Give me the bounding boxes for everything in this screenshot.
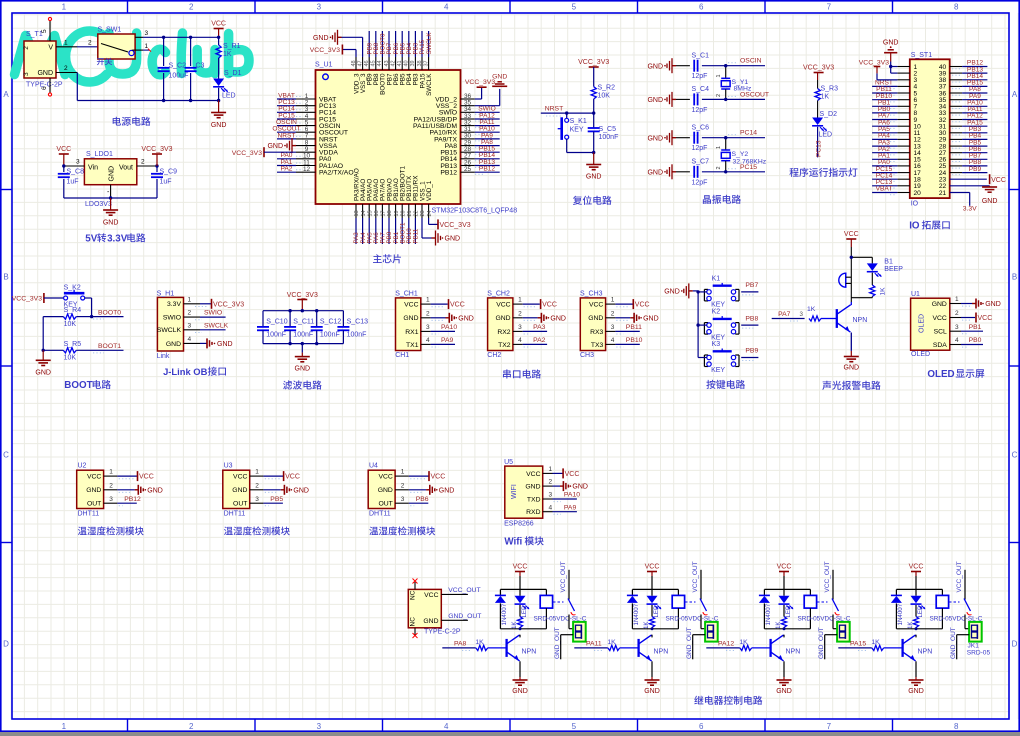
svg-text:TXD: TXD xyxy=(527,496,541,503)
svg-text:VCC_3V3: VCC_3V3 xyxy=(310,47,340,54)
svg-text:S_C9: S_C9 xyxy=(160,169,178,176)
svg-text:GND_OUT: GND_OUT xyxy=(818,627,825,659)
svg-text:GND: GND xyxy=(295,366,311,373)
svg-text:15: 15 xyxy=(367,210,373,216)
svg-text:GND: GND xyxy=(776,688,792,695)
svg-text:100nF: 100nF xyxy=(347,332,367,339)
svg-text:1K: 1K xyxy=(821,94,830,101)
svg-text:S_K2: S_K2 xyxy=(64,285,81,292)
svg-text:8: 8 xyxy=(954,3,959,12)
svg-text:23: 23 xyxy=(420,210,426,216)
svg-text:NRST: NRST xyxy=(545,106,564,113)
svg-text:8: 8 xyxy=(954,722,959,731)
net label PA8 relay base xyxy=(442,641,476,651)
svg-text:GND: GND xyxy=(883,40,899,47)
ground OLED pin1 xyxy=(950,296,1001,308)
svg-text:1: 1 xyxy=(716,146,722,149)
svg-text:S_R5: S_R5 xyxy=(64,341,82,348)
net label PA9 wifi pin4 xyxy=(543,504,577,514)
relay contact PA11 xyxy=(685,561,708,628)
svg-text:2: 2 xyxy=(426,310,430,317)
svg-text:TX1: TX1 xyxy=(406,342,419,349)
svg-text:PA9: PA9 xyxy=(441,337,454,344)
svg-text:1: 1 xyxy=(955,296,959,303)
net label GND_OUT xyxy=(441,613,481,620)
svg-text:1: 1 xyxy=(518,297,522,304)
net label PA15 relay base xyxy=(838,641,872,651)
net label PA11 relay base xyxy=(574,641,608,651)
power VCC_3V3 chip VDDA pin9 xyxy=(232,147,296,157)
diode 1N4007 PA12 xyxy=(759,589,772,628)
svg-text:JK1: JK1 xyxy=(968,642,980,649)
svg-text:VCC_3V3: VCC_3V3 xyxy=(12,296,42,303)
pin 17 PA7/AO xyxy=(380,204,387,244)
svg-text:S_D2: S_D2 xyxy=(820,111,838,118)
header pin 15 PA1 xyxy=(872,153,910,162)
svg-text:S_C1: S_C1 xyxy=(692,53,710,60)
svg-text:6: 6 xyxy=(699,3,704,12)
pin 24 VDD_1 xyxy=(427,204,433,218)
svg-text:1N4007: 1N4007 xyxy=(501,603,508,625)
svg-text:100nF: 100nF xyxy=(266,332,286,339)
diode 1N4007 PA11 xyxy=(627,589,640,628)
header pin 6 PB10 xyxy=(872,93,910,102)
title 声光报警电路 xyxy=(822,381,880,390)
svg-text:GND: GND xyxy=(525,484,540,491)
svg-text:KEY: KEY xyxy=(570,127,584,134)
ground chip VSS_1 xyxy=(422,218,460,246)
svg-text:PA10: PA10 xyxy=(441,324,457,331)
label 开关 xyxy=(97,58,112,65)
svg-text:S_R4: S_R4 xyxy=(64,307,82,314)
svg-text:NC: NC xyxy=(410,590,417,600)
svg-text:VCC: VCC xyxy=(431,474,446,481)
resistor relay 1K PA12 xyxy=(775,605,786,629)
title 电源电路 xyxy=(113,117,151,126)
header pin 38 PB14 xyxy=(950,73,988,82)
svg-text:47: 47 xyxy=(357,60,363,66)
wire relay bottom rail PA8 xyxy=(500,627,546,630)
capacitor S_C8 1uF xyxy=(58,166,84,198)
key S_K2 boot xyxy=(64,285,92,317)
pin 44 BOOT0 xyxy=(377,31,386,70)
svg-text:BOOT1: BOOT1 xyxy=(98,343,121,350)
svg-text:PA10: PA10 xyxy=(564,492,580,499)
header S_H1 J-Link body xyxy=(157,290,184,359)
net label SWIO jlink pin2 xyxy=(184,310,226,320)
svg-text:1K: 1K xyxy=(511,621,518,629)
resistor S_R3 1K xyxy=(815,86,838,118)
pin 38 PA15 xyxy=(417,31,426,70)
svg-text:PA3: PA3 xyxy=(533,324,546,331)
title 串口电路 xyxy=(503,369,541,378)
svg-text:PB5: PB5 xyxy=(270,496,283,503)
power VCC_3V3 boot xyxy=(12,293,64,303)
svg-text:2: 2 xyxy=(716,166,722,169)
svg-text:PB7: PB7 xyxy=(745,282,758,289)
wire boot rail xyxy=(42,317,45,352)
relay contact PA8 xyxy=(553,561,576,628)
svg-text:21: 21 xyxy=(407,210,413,216)
svg-text:GND: GND xyxy=(403,315,418,322)
svg-text:VCC: VCC xyxy=(424,592,438,599)
svg-text:VCC: VCC xyxy=(645,564,660,571)
svg-text:VCC: VCC xyxy=(526,471,540,478)
resistor base 1K PA15 xyxy=(871,639,901,651)
power VCC_3V3 LDO output xyxy=(141,146,172,166)
svg-text:PB11: PB11 xyxy=(413,228,420,243)
resistor base 1K PA11 xyxy=(607,639,637,651)
resistor base 1K PA8 xyxy=(475,639,505,651)
svg-text:42: 42 xyxy=(390,60,396,66)
svg-text:VCC_3V3: VCC_3V3 xyxy=(213,301,244,308)
svg-text:A: A xyxy=(1012,90,1018,99)
svg-text:GND: GND xyxy=(664,289,680,296)
svg-text:GND: GND xyxy=(647,63,663,70)
svg-text:NPN: NPN xyxy=(786,649,801,656)
header pin 4 NRST xyxy=(872,80,910,89)
svg-text:S_C7: S_C7 xyxy=(692,159,710,166)
pin 39 PB3 xyxy=(410,31,419,70)
svg-text:100uF: 100uF xyxy=(169,73,189,80)
header pin 18 PC14 xyxy=(872,172,910,181)
header pin 20 VBAT xyxy=(872,186,910,195)
svg-text:GND: GND xyxy=(588,315,603,322)
svg-text:C3: C3 xyxy=(196,63,205,70)
header pin 36 PA8 xyxy=(950,86,988,95)
relay coil SRD-05VDC-SL-C PA11 xyxy=(666,589,719,628)
power VCC_3V3 chip VDD_2 xyxy=(465,79,495,99)
svg-text:IO: IO xyxy=(909,221,920,232)
pin 6 OSCOUT xyxy=(272,126,315,133)
capacitor S_C3 100nF xyxy=(185,36,205,103)
svg-text:PC15: PC15 xyxy=(740,164,757,171)
ic U1 STM32F103C8T6 body xyxy=(315,62,517,215)
svg-text:PB9: PB9 xyxy=(745,348,758,355)
svg-text:20: 20 xyxy=(400,210,406,216)
title 温湿度检测模块 U3 xyxy=(224,526,290,535)
transistor NPN relay PA15 xyxy=(903,635,933,677)
wire SW1 pin1 stub xyxy=(132,43,151,52)
svg-text:3: 3 xyxy=(611,324,615,331)
wire relay bottom rail PA11 xyxy=(632,627,678,630)
net GND_OUT PA11 xyxy=(686,627,705,659)
svg-text:14: 14 xyxy=(361,210,367,216)
svg-text:SWIO: SWIO xyxy=(163,315,181,322)
net label PA2 S_CH2 pin4 xyxy=(487,290,513,359)
wire SW1 pin3 to VCC rail xyxy=(135,30,219,37)
header pin 10 PA6 xyxy=(872,119,910,128)
svg-text:V: V xyxy=(48,45,53,52)
svg-text:OUT: OUT xyxy=(87,501,101,508)
ground wifi pin2 xyxy=(543,479,588,491)
svg-text:GND: GND xyxy=(423,618,438,625)
resistor base 1K PA12 xyxy=(739,639,769,651)
title 主芯片 xyxy=(373,254,401,263)
svg-text:GND: GND xyxy=(267,143,283,150)
title 滤波电路 xyxy=(283,380,322,389)
pin 22 PB11/RX xyxy=(413,204,420,244)
svg-text:VCC_3V3: VCC_3V3 xyxy=(803,65,834,72)
svg-text:KEY: KEY xyxy=(711,301,725,308)
svg-text:OUT: OUT xyxy=(233,501,247,508)
svg-text:GND: GND xyxy=(644,688,660,695)
ground reset xyxy=(586,151,602,181)
svg-text:SRD-05: SRD-05 xyxy=(967,649,991,656)
svg-text:7: 7 xyxy=(827,3,832,12)
svg-text:GND: GND xyxy=(445,236,461,243)
svg-text:VCC: VCC xyxy=(635,302,650,309)
wire T1 pin1 to SW1 xyxy=(56,40,98,47)
svg-text:VCC: VCC xyxy=(513,564,528,571)
bottom window edge strip xyxy=(0,732,1020,736)
svg-text:OSCOUT: OSCOUT xyxy=(740,91,769,98)
svg-text:2: 2 xyxy=(189,722,194,731)
svg-text:CH1: CH1 xyxy=(395,352,409,359)
svg-text:OLED: OLED xyxy=(911,351,930,358)
pin 3 PC14 xyxy=(277,106,316,113)
svg-text:GND: GND xyxy=(35,370,51,377)
svg-text:VDD_1: VDD_1 xyxy=(426,180,433,201)
svg-text:SWCLK: SWCLK xyxy=(204,322,229,329)
svg-text:VCC_3V3: VCC_3V3 xyxy=(287,292,318,299)
pin 47 VSS_3 xyxy=(357,57,363,70)
buzzer B1 xyxy=(839,273,852,287)
svg-text:SDA: SDA xyxy=(933,342,947,349)
svg-text:S_C13: S_C13 xyxy=(347,318,369,325)
ground jlink pin4 xyxy=(184,336,233,348)
crystal S_Y2 32.768KHz xyxy=(716,136,767,174)
svg-text:GND: GND xyxy=(844,365,860,372)
resistor S_R2 10K xyxy=(591,85,615,114)
svg-text:Wifi: Wifi xyxy=(504,537,522,548)
svg-text:1: 1 xyxy=(255,469,259,476)
pin 13 PA3/RX/AO xyxy=(353,204,360,244)
svg-text:5: 5 xyxy=(572,722,577,731)
svg-text:S_C11: S_C11 xyxy=(293,318,314,325)
pin 12 PA2/TX/AO xyxy=(277,166,316,173)
header pin 33 PA11 xyxy=(950,106,988,115)
power VCC U4 pin1 xyxy=(395,469,445,481)
pin 29 PA8 xyxy=(461,139,500,148)
svg-text:S_CH2: S_CH2 xyxy=(487,290,510,297)
svg-text:3: 3 xyxy=(518,324,522,331)
ground chip VSSA pin8 xyxy=(267,138,296,153)
net label BOOT1 xyxy=(76,343,123,353)
pin 43 PB7 xyxy=(384,31,393,70)
svg-text:VCC: VCC xyxy=(404,302,418,309)
wire alarm led branch top xyxy=(850,256,873,264)
svg-text:12pF: 12pF xyxy=(692,179,708,186)
svg-text:RX2: RX2 xyxy=(497,329,510,336)
capacitor S_C6 and net PC14 xyxy=(647,125,765,153)
svg-text:GND: GND xyxy=(908,688,924,695)
svg-text:10K: 10K xyxy=(598,93,611,100)
ground U2 pin2 xyxy=(104,482,163,494)
svg-text:NC: NC xyxy=(410,617,417,627)
capacitor S_C7 and net PC15 xyxy=(647,159,765,187)
svg-text:GND: GND xyxy=(512,688,528,695)
terminal block connector PA11 xyxy=(705,622,718,642)
svg-text:PB11: PB11 xyxy=(626,324,642,331)
svg-text:GND: GND xyxy=(211,122,227,129)
ground keys xyxy=(664,283,698,298)
capacitor S_C11 100nF xyxy=(284,311,314,344)
svg-text:3: 3 xyxy=(800,311,804,318)
pin 21 PB10/TX xyxy=(406,204,413,244)
svg-text:2: 2 xyxy=(88,40,92,47)
svg-text:2: 2 xyxy=(64,65,68,72)
svg-text:3: 3 xyxy=(401,496,405,503)
svg-text:2: 2 xyxy=(189,3,194,12)
net label PB12 U2 pin3 xyxy=(104,496,141,506)
header pin 11 PA5 xyxy=(872,126,910,135)
svg-text:2: 2 xyxy=(23,46,30,50)
svg-text:2: 2 xyxy=(401,482,405,489)
svg-text:41: 41 xyxy=(397,60,403,66)
wire relay top rail PA8 xyxy=(500,588,546,590)
ground U3 pin2 xyxy=(250,482,309,494)
pin 37 SWCLK xyxy=(423,31,432,70)
net label PB10 S_CH3 pin4 xyxy=(580,290,606,359)
power VCC relay PA8 xyxy=(513,564,528,590)
LED S_D2 xyxy=(812,111,837,139)
svg-text:B: B xyxy=(1012,273,1017,282)
svg-text:PB12: PB12 xyxy=(440,170,457,177)
svg-text:17: 17 xyxy=(381,210,387,216)
svg-text:DHT11: DHT11 xyxy=(369,511,391,518)
svg-text:GND: GND xyxy=(232,487,247,494)
net GND_OUT PA12 xyxy=(818,627,837,659)
svg-text:3: 3 xyxy=(549,492,553,499)
svg-text:S_CH3: S_CH3 xyxy=(580,290,603,297)
svg-text:12pF: 12pF xyxy=(692,107,708,114)
capacitor S_C10 100nF xyxy=(257,311,288,344)
header pin 19 PC13 xyxy=(872,179,910,188)
title BOOT电路 xyxy=(64,380,111,391)
svg-text:1K: 1K xyxy=(607,639,616,646)
capacitor S_C9 1uF xyxy=(151,166,177,198)
LED S_D1 xyxy=(213,70,242,102)
svg-text:GND: GND xyxy=(37,70,53,77)
wire LDO ground rail xyxy=(64,185,157,200)
header pin 27 PB6 xyxy=(950,146,988,155)
key K3 xyxy=(698,341,758,374)
svg-text:37: 37 xyxy=(423,60,429,66)
svg-text:NPN: NPN xyxy=(522,649,537,656)
svg-text:19: 19 xyxy=(394,210,400,216)
svg-text:1N4007: 1N4007 xyxy=(765,603,772,625)
svg-text:D: D xyxy=(3,640,9,649)
svg-text:VCC_OUT: VCC_OUT xyxy=(824,561,831,592)
wire key rail xyxy=(696,290,699,357)
svg-text:PC14: PC14 xyxy=(740,130,757,137)
wire filter bottom rail xyxy=(263,342,343,345)
svg-text:2: 2 xyxy=(716,94,722,97)
relay contact PA15 xyxy=(949,561,972,628)
capacitor S_C5 100nF xyxy=(588,113,619,152)
terminal block connector PA15 xyxy=(969,622,982,642)
svg-text:C: C xyxy=(3,451,9,460)
svg-text:1K: 1K xyxy=(475,639,484,646)
wire filter top rail xyxy=(263,309,343,312)
svg-text:1K: 1K xyxy=(907,621,914,629)
capacitor S_C13 100nF xyxy=(337,311,368,344)
pin 46 PB9 xyxy=(364,31,373,70)
power VCC_3V3 jlink pin1 xyxy=(184,296,245,308)
svg-text:VCC_OUT: VCC_OUT xyxy=(956,561,963,592)
svg-text:1K: 1K xyxy=(223,51,232,58)
svg-text:PA2/TX/AO: PA2/TX/AO xyxy=(319,170,354,177)
key K2 xyxy=(698,309,758,342)
svg-text:GND: GND xyxy=(932,301,947,308)
pin 35 VSS_2 xyxy=(461,100,475,107)
svg-text:3.3V: 3.3V xyxy=(107,234,128,245)
svg-text:5: 5 xyxy=(572,3,577,12)
net label VCC_OUT xyxy=(441,587,480,594)
svg-text:48: 48 xyxy=(351,60,357,66)
svg-text:PC13: PC13 xyxy=(815,140,822,157)
svg-text:1uF: 1uF xyxy=(67,179,79,186)
svg-text:VCC: VCC xyxy=(211,21,226,28)
wire relay top rail PA11 xyxy=(632,588,678,590)
svg-text:100nF: 100nF xyxy=(599,134,619,141)
ground power circuit xyxy=(211,101,227,130)
svg-text:4: 4 xyxy=(549,504,553,511)
svg-text:VCC: VCC xyxy=(777,564,792,571)
svg-text:NPN: NPN xyxy=(853,317,868,324)
switch S_SW1 xyxy=(98,27,136,60)
header pin 16 PA0 xyxy=(872,159,910,168)
header pin 30 PB3 xyxy=(950,126,988,135)
svg-text:VCC: VCC xyxy=(56,146,71,153)
power VCC LDO input xyxy=(56,146,71,166)
svg-text:13: 13 xyxy=(354,210,360,216)
svg-text:1: 1 xyxy=(426,297,430,304)
power VCC_3V3 chip VDD_3 xyxy=(310,45,356,58)
svg-text:GND: GND xyxy=(439,487,455,494)
svg-text:PA12: PA12 xyxy=(718,641,734,648)
svg-text:1K: 1K xyxy=(643,621,650,629)
svg-text:1: 1 xyxy=(716,74,722,77)
wire relay top rail PA12 xyxy=(764,588,810,590)
header pin 7 PB1 xyxy=(872,100,910,109)
svg-text:K3: K3 xyxy=(712,341,721,348)
header pin 2 nc xyxy=(897,72,909,74)
svg-text:12: 12 xyxy=(303,166,311,173)
pin 9 VDDA xyxy=(296,146,316,153)
relay coil SRD-05VDC-SL-C PA12 xyxy=(798,589,851,628)
svg-text:VCC: VCC xyxy=(285,474,300,481)
wire LDO pin2 xyxy=(137,159,159,168)
svg-text:GND: GND xyxy=(86,487,101,494)
svg-text:TYPE-C-2P: TYPE-C-2P xyxy=(424,628,461,635)
svg-text:PB8: PB8 xyxy=(745,315,758,322)
power VCC alarm xyxy=(844,231,859,302)
ground relay PA11 xyxy=(644,677,660,695)
svg-text:2: 2 xyxy=(188,310,192,317)
pin 30 PA9/TX xyxy=(461,132,500,141)
svg-text:LED: LED xyxy=(222,93,236,100)
ground filter xyxy=(295,344,311,373)
capacitor S_C2 100uF xyxy=(158,36,189,103)
transistor Q1 NPN alarm xyxy=(837,302,867,351)
svg-text:2: 2 xyxy=(141,159,145,166)
svg-text:3: 3 xyxy=(188,322,192,329)
svg-text:PB1: PB1 xyxy=(969,324,982,331)
wire relay top rail PA15 xyxy=(896,588,942,590)
svg-text:PB0: PB0 xyxy=(969,337,982,344)
